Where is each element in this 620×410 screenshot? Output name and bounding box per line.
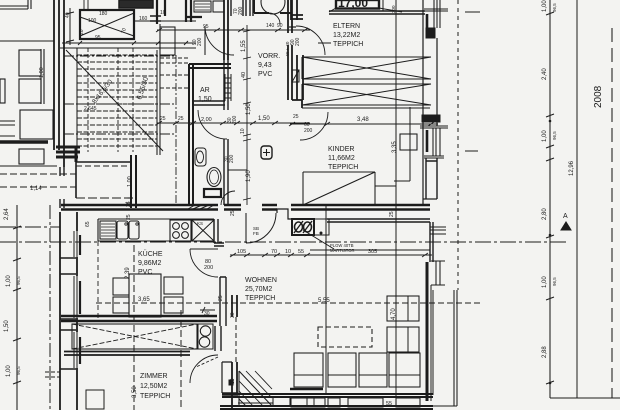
svg-text:90: 90 bbox=[277, 23, 283, 29]
svg-text:9,43: 9,43 bbox=[258, 62, 272, 69]
landing bottom line bbox=[76, 197, 136, 199]
svg-text:3,35: 3,35 bbox=[392, 141, 398, 153]
svg-text:30: 30 bbox=[230, 312, 236, 318]
zimmer mid wall bbox=[64, 352, 190, 356]
line below bbox=[0, 165, 57, 167]
terrace stairs triangle bbox=[239, 371, 272, 406]
dim line above box bbox=[66, 8, 74, 45]
svg-text:10: 10 bbox=[240, 128, 246, 134]
svg-text:180: 180 bbox=[99, 11, 108, 17]
wohnen-zimmer wall bbox=[232, 295, 237, 410]
svg-text:2008: 2008 bbox=[593, 85, 604, 108]
chair right 2 bbox=[164, 297, 183, 313]
KS box bbox=[192, 220, 214, 241]
kitchen right wall upper bbox=[214, 219, 224, 246]
wohnen right wall upper bbox=[430, 222, 433, 262]
svg-text:1,90: 1,90 bbox=[246, 170, 252, 182]
bath vanity bbox=[195, 148, 206, 166]
svg-text:95: 95 bbox=[95, 35, 101, 41]
eltern top wall bbox=[329, 11, 425, 14]
bottom furniture 3 bbox=[328, 398, 340, 407]
wall block 28-38 bbox=[426, 28, 435, 38]
toilet bowl bbox=[207, 168, 221, 187]
svg-text:1,00: 1,00 bbox=[542, 276, 548, 288]
svg-text:3,50: 3,50 bbox=[132, 386, 138, 398]
svg-text:25: 25 bbox=[293, 114, 299, 120]
bottom furniture 4 bbox=[348, 398, 383, 407]
svg-text:12,50M2: 12,50M2 bbox=[140, 383, 167, 390]
bed stub line bbox=[375, 185, 396, 187]
couch module 4 bbox=[389, 353, 420, 387]
svg-text:25: 25 bbox=[230, 210, 236, 216]
svg-text:96,5: 96,5 bbox=[552, 131, 557, 140]
section marker triangle bbox=[561, 222, 571, 230]
terrace sofa 1 bbox=[19, 50, 41, 76]
stamp tick bbox=[382, 0, 384, 11]
svg-text:1,00: 1,00 bbox=[127, 176, 133, 187]
wall vertical x131-136 bbox=[131, 155, 136, 208]
inner wall line bottom bbox=[76, 212, 78, 410]
toilet tank bbox=[204, 189, 221, 197]
svg-text:1,55: 1,55 bbox=[241, 40, 247, 52]
washbasin circle bbox=[261, 0, 285, 14]
right wall outer line bbox=[422, 0, 424, 205]
OO box bbox=[292, 219, 314, 235]
zimmer small square bbox=[86, 390, 104, 409]
svg-text:20: 20 bbox=[79, 29, 85, 35]
sink basin 1 bbox=[117, 221, 128, 239]
bottom furniture 1 bbox=[273, 397, 290, 406]
kinder wall right seg bbox=[423, 198, 437, 200]
window 2 bbox=[74, 276, 77, 318]
wall foot kinder door bbox=[292, 100, 302, 108]
svg-text:1,50: 1,50 bbox=[246, 103, 252, 115]
svg-text:200: 200 bbox=[304, 128, 313, 134]
dark bar bbox=[0, 140, 48, 144]
dim chain x550 bbox=[549, 0, 551, 398]
wall left of WC room bbox=[186, 0, 202, 22]
couch module 2 bbox=[328, 353, 356, 387]
line x577 bbox=[576, 0, 578, 398]
window sill right bbox=[430, 227, 446, 234]
stair box diagonals bbox=[80, 13, 134, 36]
stair dashed verticals bbox=[88, 48, 133, 152]
mid dim line y123 bbox=[156, 121, 310, 125]
AR left wall bbox=[189, 64, 193, 205]
bottom furniture 2 bbox=[291, 398, 325, 407]
door wall step bbox=[277, 209, 292, 219]
dashed horizontal left of wall y372 bbox=[45, 372, 60, 377]
top window sill bbox=[424, 9, 448, 11]
terrace sofa 3 bbox=[20, 110, 53, 139]
outer wall bottom segment bbox=[59, 212, 61, 410]
dashed y177 bbox=[0, 173, 76, 175]
svg-text:2,40: 2,40 bbox=[542, 68, 548, 80]
kinder window sill bbox=[420, 126, 448, 158]
dashdot left upper bbox=[0, 226, 60, 228]
svg-text:1,50: 1,50 bbox=[198, 96, 212, 103]
bath sill line bbox=[228, 169, 247, 171]
svg-text:TEPPICH: TEPPICH bbox=[328, 164, 358, 171]
svg-text:40: 40 bbox=[65, 12, 71, 18]
svg-text:5,55: 5,55 bbox=[318, 298, 330, 304]
bath top door arc bbox=[198, 110, 227, 139]
svg-text:200: 200 bbox=[197, 37, 203, 46]
svg-text:30: 30 bbox=[434, 117, 440, 123]
svg-text:KINDER: KINDER bbox=[328, 146, 354, 153]
svg-text:ZIMMER: ZIMMER bbox=[140, 373, 168, 380]
eltern top-left corner wall bbox=[292, 15, 303, 19]
terrace slab edge bbox=[220, 406, 433, 409]
svg-text:100: 100 bbox=[88, 18, 97, 24]
stove bbox=[170, 220, 191, 241]
window 1 kitchen bbox=[74, 231, 77, 257]
svg-text:TEPPICH: TEPPICH bbox=[245, 295, 275, 302]
terrace sofa 2 bbox=[19, 79, 41, 103]
svg-text:13,22M2: 13,22M2 bbox=[333, 32, 360, 39]
bottom furniture 5 bbox=[396, 398, 420, 407]
top window verticals bbox=[434, 0, 440, 28]
couch right unit 2 bbox=[387, 327, 419, 352]
svg-text:1,00: 1,00 bbox=[39, 67, 45, 78]
AR top wall bbox=[189, 64, 231, 68]
landing left wall bbox=[75, 162, 77, 198]
svg-text:9,86M2: 9,86M2 bbox=[138, 260, 161, 267]
svg-text:200: 200 bbox=[204, 265, 213, 271]
svg-text:2,88: 2,88 bbox=[542, 346, 548, 358]
couch seat lines bbox=[294, 374, 420, 376]
couch top-right unit bbox=[387, 296, 419, 321]
svg-text:65: 65 bbox=[85, 221, 91, 227]
eltern stamp box bbox=[336, 0, 379, 9]
long vertical x396 bbox=[395, 0, 397, 397]
eltern left wall lower bbox=[297, 55, 303, 100]
svg-text:55: 55 bbox=[298, 249, 304, 255]
svg-text:40: 40 bbox=[241, 72, 247, 78]
sink drainboard bbox=[100, 221, 116, 239]
right wall inner bbox=[436, 38, 438, 126]
dim line witness y247 bbox=[310, 249, 430, 251]
sink basin 2 bbox=[129, 221, 139, 239]
kinder wardrobe right bbox=[400, 134, 417, 150]
stamp box small bbox=[119, 0, 153, 8]
svg-text:MARTISTOR: MARTISTOR bbox=[330, 248, 355, 253]
kinder vertical x410 bbox=[394, 107, 410, 181]
step rect bbox=[19, 149, 44, 164]
window 2 bar bbox=[79, 281, 81, 314]
svg-text:30: 30 bbox=[204, 311, 210, 317]
svg-text:96,5: 96,5 bbox=[16, 366, 21, 375]
svg-text:2,80: 2,80 bbox=[542, 208, 548, 220]
svg-text:200: 200 bbox=[391, 5, 396, 13]
svg-text:17,00: 17,00 bbox=[338, 0, 368, 10]
wohnen right wall lower bbox=[431, 285, 433, 401]
kinder door arc bbox=[300, 112, 328, 140]
wohnen dim line y255 bbox=[230, 253, 432, 257]
svg-text:200: 200 bbox=[238, 6, 244, 15]
svg-text:305: 305 bbox=[368, 249, 377, 255]
stair treads dashed bbox=[77, 55, 157, 146]
dim dashed 5,55 bbox=[96, 302, 480, 304]
window 1 bar bbox=[79, 235, 81, 255]
wc door arc bbox=[205, 26, 234, 55]
stair run diagonal bbox=[66, 50, 163, 151]
svg-text:TEPPICH: TEPPICH bbox=[140, 393, 170, 400]
svg-text:KS: KS bbox=[197, 221, 203, 226]
svg-text:1,14: 1,14 bbox=[30, 186, 42, 192]
loggia window bbox=[431, 261, 445, 285]
kitchen west dashed bbox=[97, 241, 99, 318]
svg-text:KÜCHE: KÜCHE bbox=[138, 250, 163, 258]
svg-text:140: 140 bbox=[266, 23, 275, 29]
30 tick top bbox=[200, 307, 215, 313]
stair top box bbox=[80, 10, 134, 39]
wohnen top wall right part bbox=[327, 219, 430, 222]
couch module 1 bbox=[294, 353, 323, 387]
dashdot vertical x50 bbox=[49, 205, 51, 410]
terrace door stubs bbox=[60, 167, 64, 208]
dim line below box bbox=[62, 41, 196, 45]
svg-text:200: 200 bbox=[295, 37, 301, 46]
line y48 bbox=[60, 47, 196, 49]
tick above box bbox=[84, 0, 88, 10]
chair left 1 bbox=[113, 278, 129, 295]
svg-text:30: 30 bbox=[230, 378, 236, 384]
zimmer top wall bbox=[61, 316, 217, 321]
zimmer wardrobe bbox=[72, 324, 197, 349]
svg-text:W + 40: W + 40 bbox=[285, 41, 290, 56]
long vertical x326 bbox=[325, 205, 327, 394]
dashed x612 bbox=[611, 28, 613, 398]
svg-text:95: 95 bbox=[203, 24, 209, 30]
svg-text:105: 105 bbox=[237, 249, 246, 255]
stamp diagonals bbox=[329, 8, 402, 12]
wc door arc lower bbox=[221, 191, 235, 205]
shaft rect bbox=[160, 27, 175, 55]
landing wall horizontal bbox=[76, 161, 131, 163]
bath right wall mid bbox=[224, 60, 228, 110]
svg-text:1,50: 1,50 bbox=[258, 116, 270, 122]
eltern-kinder wall bbox=[302, 105, 430, 108]
stair dashdot cross bbox=[64, 56, 176, 134]
OO cell 2 bbox=[314, 219, 329, 235]
svg-text:A: A bbox=[563, 213, 568, 220]
svg-text:ELTERN: ELTERN bbox=[333, 23, 360, 30]
washroom door arc bbox=[269, 13, 280, 24]
svg-text:10: 10 bbox=[285, 249, 291, 255]
svg-text:TEPPICH: TEPPICH bbox=[333, 41, 363, 48]
bottom right line bbox=[550, 397, 620, 399]
terrace door wall piece bbox=[150, 16, 161, 21]
svg-text:70: 70 bbox=[271, 249, 277, 255]
wall hatch segment bbox=[188, 205, 214, 209]
door 70/200 wall bbox=[231, 0, 253, 16]
washroom box top right bbox=[254, 0, 292, 13]
svg-text:160: 160 bbox=[139, 16, 148, 22]
terrace top line bbox=[0, 40, 54, 42]
kitchen table bbox=[129, 274, 161, 317]
AR shelf ladder bbox=[225, 74, 231, 101]
svg-text:3,65: 3,65 bbox=[138, 297, 150, 303]
dashed verticals bottom left bbox=[133, 245, 135, 410]
svg-text:AR: AR bbox=[200, 87, 210, 94]
svg-text:1,00: 1,00 bbox=[542, 130, 548, 142]
balcony bottom bbox=[433, 405, 457, 407]
svg-text:PVC: PVC bbox=[138, 269, 152, 276]
svg-text:25: 25 bbox=[389, 211, 395, 217]
wohnen bottom wall bbox=[222, 394, 433, 397]
washer unit bbox=[198, 324, 213, 349]
bath mid wall bbox=[224, 139, 228, 205]
kinder dim line 3,48 bbox=[289, 122, 438, 126]
kinder window verticals bbox=[433, 128, 440, 156]
vorr left wall bbox=[224, 0, 228, 60]
window black bar top bbox=[426, 14, 429, 31]
svg-text:2,39: 2,39 bbox=[125, 267, 131, 279]
dashdot mid horizontal bbox=[0, 241, 568, 243]
kinder bed bbox=[303, 172, 375, 205]
AR bottom wall bbox=[193, 101, 225, 105]
svg-text:VORR.: VORR. bbox=[258, 53, 280, 60]
svg-text:1,00: 1,00 bbox=[6, 365, 12, 377]
svg-text:25: 25 bbox=[218, 295, 224, 301]
svg-text:96,5: 96,5 bbox=[16, 276, 21, 285]
eltern door arc bbox=[296, 26, 325, 55]
svg-text:2,645: 2,645 bbox=[84, 106, 97, 112]
WC radiator rect bbox=[194, 1, 211, 12]
dashed wall gap bbox=[235, 317, 237, 362]
svg-text:3,48: 3,48 bbox=[357, 117, 369, 123]
couch black bar bbox=[290, 388, 323, 391]
svg-text:25: 25 bbox=[178, 116, 184, 122]
chair right 1 bbox=[164, 277, 183, 294]
svg-text:11,66M2: 11,66M2 bbox=[328, 155, 355, 162]
svg-text:FB: FB bbox=[253, 231, 259, 236]
chair left 2 bbox=[113, 297, 129, 313]
left-edge lines bbox=[0, 121, 15, 136]
left-edge rect 1 bbox=[0, 79, 5, 103]
zimmer right wall lower bbox=[222, 362, 232, 393]
loggia black bar bbox=[426, 262, 429, 401]
zimmer right wall upper bbox=[215, 326, 221, 351]
zimmer door arc bbox=[190, 355, 218, 383]
svg-text:2,64: 2,64 bbox=[4, 208, 10, 220]
WC shelf rect2 bbox=[213, 1, 224, 12]
shaft dashed bbox=[160, 58, 188, 88]
kitchen right wall lower bbox=[220, 277, 226, 326]
eltern left wall bbox=[291, 0, 297, 20]
dashed y187 bbox=[0, 186, 76, 188]
svg-text:1,00: 1,00 bbox=[542, 0, 548, 12]
svg-text:25: 25 bbox=[126, 214, 132, 220]
svg-text:2,00: 2,00 bbox=[201, 117, 212, 123]
window 3 bar bbox=[79, 337, 81, 364]
vorr vertical dim bbox=[243, 25, 251, 205]
svg-text:25,70M2: 25,70M2 bbox=[245, 286, 272, 293]
outer wall top segment bbox=[54, 0, 64, 167]
wardrobe row1 bbox=[302, 57, 431, 79]
elektro hatch box bbox=[292, 70, 299, 82]
svg-text:25: 25 bbox=[125, 202, 131, 208]
svg-text:55: 55 bbox=[386, 401, 392, 407]
slab mid line bbox=[238, 402, 273, 404]
dashed table bbox=[318, 327, 372, 347]
wall block 158-199 bbox=[426, 158, 437, 199]
stair entry corner block bbox=[56, 147, 80, 162]
svg-text:96,5: 96,5 bbox=[552, 3, 557, 12]
svg-text:1,00: 1,00 bbox=[6, 275, 12, 287]
svg-text:WOHNEN: WOHNEN bbox=[245, 277, 277, 284]
stair right wall top bbox=[157, 0, 165, 24]
door handle mark bbox=[229, 380, 233, 385]
svg-text:10: 10 bbox=[160, 10, 166, 16]
kitchen door arc bbox=[190, 249, 218, 277]
window 3 bbox=[74, 332, 77, 368]
kitchen counter bbox=[98, 219, 214, 241]
witness ticks right bbox=[465, 12, 480, 151]
eltern-kinder wall band bbox=[422, 115, 440, 122]
svg-text:PVC: PVC bbox=[258, 71, 272, 78]
wardrobe row2 bbox=[302, 84, 431, 105]
shaft dashdot vertical bbox=[175, 55, 177, 205]
svg-text:200: 200 bbox=[229, 154, 235, 163]
dim line y21 bbox=[134, 20, 196, 22]
dim line y30 bbox=[156, 28, 310, 32]
wall blocks bbox=[60, 258, 76, 369]
sink taps bbox=[125, 223, 127, 225]
svg-text:12,96: 12,96 bbox=[569, 160, 575, 176]
vorr right wall bbox=[288, 0, 292, 100]
balcony edge bbox=[454, 290, 457, 406]
vorr-wohnen door arc bbox=[246, 213, 276, 243]
dashed x458 bbox=[457, 0, 459, 290]
svg-text:1,50: 1,50 bbox=[4, 320, 10, 332]
svg-text:25: 25 bbox=[160, 116, 166, 122]
stair side lines bbox=[77, 24, 160, 155]
middle wall segments bbox=[61, 205, 218, 210]
wall step bottom bbox=[222, 393, 238, 396]
svg-text:96,5: 96,5 bbox=[552, 277, 557, 286]
leader line bbox=[303, 230, 334, 249]
sofa back line bbox=[41, 49, 44, 104]
light switch box bbox=[261, 146, 272, 159]
couch module 3 bbox=[359, 353, 387, 387]
kinder black bar bbox=[426, 130, 429, 152]
top-left corner lines bbox=[0, 0, 31, 9]
